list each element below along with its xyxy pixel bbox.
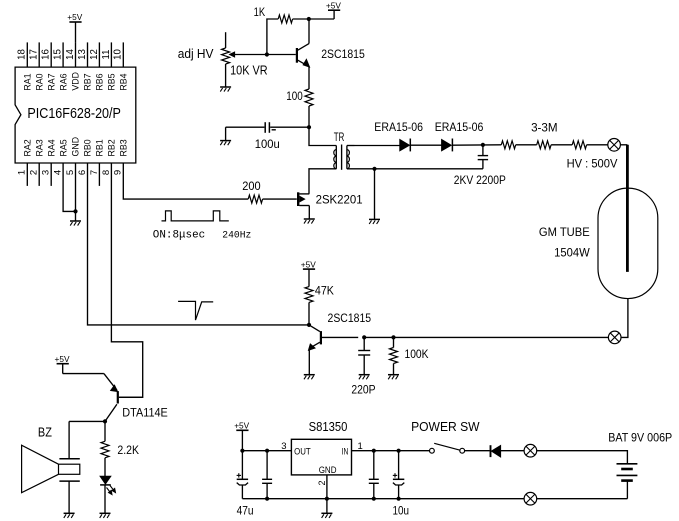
svg-text:3: 3	[41, 170, 52, 175]
svg-text:POWER SW: POWER SW	[411, 420, 480, 434]
svg-text:2SC1815: 2SC1815	[328, 311, 372, 325]
svg-text:RB3: RB3	[119, 139, 129, 156]
node C7 / rail	[372, 449, 376, 453]
svg-text:PIC16F628-20/P: PIC16F628-20/P	[27, 106, 121, 122]
+5V supply at regulator output	[234, 421, 249, 451]
wire U2 GND down	[326, 475, 328, 513]
wire CN4 to battery -	[537, 498, 628, 500]
wire R7-R8	[551, 144, 572, 146]
IC U1 PIC16F628-20/P body	[15, 67, 136, 163]
svg-text:2: 2	[29, 170, 40, 175]
wire RB2 pin8 to Q4 base	[111, 163, 142, 397]
svg-text:S81350: S81350	[309, 420, 348, 434]
+5V supply at R9	[301, 259, 316, 286]
svg-text:12: 12	[89, 49, 100, 60]
wire U2 IN to switch	[352, 450, 430, 452]
transistor Q4 DTA114E (PNP)	[104, 374, 143, 422]
transformer TR	[309, 127, 483, 194]
svg-text:9: 9	[113, 170, 124, 175]
wire D1 to D2	[410, 144, 441, 146]
node Q1 base / VR1 / R1	[265, 52, 269, 56]
node C6 / rail	[265, 449, 269, 453]
resistor R6 (3-3M chain)	[501, 141, 515, 149]
svg-text:GM TUBE: GM TUBE	[539, 225, 590, 239]
wire base line to CN2	[394, 336, 609, 338]
junction RA5/GND	[73, 209, 77, 213]
ground at R10	[388, 374, 399, 376]
svg-text:3-3M: 3-3M	[531, 120, 558, 134]
GM tube anode (thick)	[626, 145, 629, 272]
VR1 wiper arrow to Q1 base	[230, 52, 267, 57]
svg-text:2KV 2200P: 2KV 2200P	[454, 173, 506, 187]
svg-text:200: 200	[242, 179, 261, 193]
svg-text:47K: 47K	[315, 283, 334, 297]
svg-text:47u: 47u	[237, 504, 254, 518]
buzzer BZ	[22, 421, 105, 513]
svg-text:10: 10	[113, 49, 124, 60]
LED D3	[100, 476, 115, 513]
+5V supply at U1 VDD pin14	[67, 12, 82, 42]
capacitor C1 100u (electrolytic)	[226, 122, 309, 140]
svg-text:HV : 500V: HV : 500V	[567, 156, 618, 170]
wire GM tube cathode to CN2	[621, 299, 628, 338]
resistor R10 100K	[390, 337, 398, 374]
node U2 GND / ground rail	[325, 497, 329, 501]
capacitor C6 (bypass)	[262, 451, 272, 499]
resistor R8	[572, 141, 586, 149]
wire secondary bottom to ground	[374, 169, 376, 219]
node HV filter	[481, 143, 485, 147]
connector CN3 battery +	[524, 444, 537, 457]
wire pin4 RA5 to GND tie	[63, 163, 75, 211]
diode D2 ERA15-06	[442, 139, 453, 152]
node C7 ground rail	[372, 497, 376, 501]
svg-text:OUT: OUT	[294, 447, 311, 458]
wire C4 to R10	[364, 336, 393, 338]
resistor R11 2.2K	[101, 421, 109, 476]
U1 bottom pin labels RA2 RA3 RA4 RA5 GND RB0 RB1 RB2 RB3	[23, 137, 129, 157]
svg-text:RB2: RB2	[107, 139, 117, 156]
svg-text:1: 1	[17, 170, 28, 175]
svg-text:10K VR: 10K VR	[230, 64, 268, 78]
node secondary-bottom / ground	[372, 167, 376, 171]
svg-text:5: 5	[65, 170, 76, 175]
svg-text:220P: 220P	[351, 383, 375, 397]
wire D2 to HV node	[452, 144, 501, 146]
svg-text:RB1: RB1	[95, 139, 105, 156]
wire CN3 to battery	[537, 451, 628, 464]
svg-text:VDD: VDD	[71, 72, 81, 91]
ground at Q2 source	[304, 218, 315, 220]
U1 top pin numbers 18..10	[17, 49, 124, 60]
svg-text:RB5: RB5	[107, 73, 117, 90]
svg-text:GND: GND	[319, 465, 337, 476]
wire R6-R7	[516, 144, 537, 146]
ground at C1	[220, 140, 231, 142]
svg-text:RA4: RA4	[46, 139, 56, 156]
waveform: positive pulses	[162, 211, 229, 221]
svg-text:18: 18	[17, 49, 28, 60]
capacitor C4 220P	[358, 337, 370, 374]
svg-text:RB6: RB6	[95, 73, 105, 90]
diode D1 ERA15-06	[400, 139, 411, 152]
diode D4 (reverse protection)	[491, 445, 525, 457]
svg-text:100K: 100K	[405, 347, 429, 361]
svg-text:16: 16	[41, 49, 52, 60]
transistor Q1 2SC1815 (NPN)	[267, 19, 310, 89]
svg-text:RA6: RA6	[58, 73, 68, 90]
GM tube body 1504W	[598, 188, 658, 298]
svg-text:RA3: RA3	[34, 139, 44, 156]
svg-text:+5V: +5V	[301, 259, 316, 269]
switch SW1 POWER SW	[430, 443, 490, 453]
svg-text:14: 14	[65, 49, 76, 60]
svg-text:RB4: RB4	[119, 73, 129, 90]
svg-text:240Hz: 240Hz	[222, 230, 251, 242]
wire CN1 to GM tube anode	[620, 144, 627, 146]
capacitor C8 10u (electrolytic)	[393, 451, 405, 499]
capacitor C7 (bypass)	[369, 451, 379, 499]
node Q1 emitter / C1 / TR primary	[307, 125, 311, 129]
+5V supply top right	[309, 0, 342, 19]
ground at BZ	[64, 512, 75, 514]
svg-text:adj HV: adj HV	[178, 47, 214, 61]
svg-text:BAT 9V 006P: BAT 9V 006P	[608, 431, 672, 445]
svg-text:ON:8μsec: ON:8μsec	[153, 230, 205, 242]
ground at U1 GND	[70, 220, 81, 222]
wire pin5 GND down	[75, 163, 77, 221]
potentiometer VR1 10K adj HV	[222, 32, 230, 86]
ground at D3	[100, 512, 111, 514]
capacitor C5 47u (electrolytic)	[237, 451, 249, 499]
svg-text:1K: 1K	[254, 5, 266, 19]
ground at TR secondary	[369, 218, 380, 220]
svg-text:3: 3	[281, 441, 286, 452]
svg-text:2SK2201: 2SK2201	[316, 192, 363, 206]
svg-text:100u: 100u	[255, 137, 280, 151]
svg-text:RB7: RB7	[83, 73, 93, 90]
svg-text:+5V: +5V	[55, 354, 70, 364]
U1 bottom pin numbers 1..9	[17, 170, 124, 175]
svg-text:7: 7	[89, 170, 100, 175]
transistor Q3 2SC1815 (NPN, mirrored)	[309, 325, 359, 375]
ground at VR1	[220, 86, 231, 88]
wire R8 to HV terminal	[587, 144, 608, 146]
svg-text:RA5: RA5	[58, 139, 68, 156]
svg-text:RA7: RA7	[46, 73, 56, 90]
svg-text:11: 11	[101, 49, 112, 59]
svg-text:RA1: RA1	[23, 73, 33, 90]
svg-text:+5V: +5V	[234, 421, 249, 431]
U1 top pins 18..10	[27, 42, 123, 67]
wire TR secondary to D1	[355, 145, 400, 147]
ground at U2 GND	[321, 512, 332, 514]
U1 top pin labels RA1 RA0 RA7 RA6 VDD RB7 RB6 RB5 RB4	[23, 72, 129, 91]
svg-text:4: 4	[53, 170, 64, 175]
svg-text:ERA15-06: ERA15-06	[374, 120, 423, 134]
battery B1 9V	[617, 464, 638, 499]
svg-text:+5V: +5V	[326, 0, 341, 10]
node +5V rail / C5	[240, 449, 244, 453]
capacitor C2 2KV 2200P	[478, 145, 488, 169]
svg-text:2: 2	[317, 480, 327, 485]
node Q3 collector / R9 / RB0	[307, 323, 311, 327]
resistor R9 47K	[305, 287, 313, 325]
regulator U2 S81350	[291, 439, 351, 475]
node R10 / base line	[391, 335, 395, 339]
connector CN2 GM tube return	[608, 331, 621, 344]
wire +5V rail	[242, 450, 291, 452]
svg-text:IN: IN	[342, 447, 349, 458]
wire RB0 pin6 to Q3 collector node	[88, 163, 310, 325]
svg-text:17: 17	[29, 49, 40, 60]
svg-text:100: 100	[286, 89, 303, 103]
svg-text:6: 6	[77, 170, 88, 175]
node R1/Q1 collector/+5V	[307, 17, 311, 21]
node C5 bottom rail	[265, 497, 269, 501]
svg-text:2SC1815: 2SC1815	[321, 47, 365, 61]
resistor R1 1K	[267, 15, 309, 55]
svg-text:1504W: 1504W	[554, 245, 590, 259]
svg-text:13: 13	[77, 49, 88, 60]
svg-text:TR: TR	[334, 130, 345, 144]
waveform: negative pulse	[178, 301, 213, 320]
U1 bottom pin stubs 1,2,3,7	[27, 163, 99, 186]
ground at C4	[359, 374, 370, 376]
connector CN1 HV terminal	[608, 139, 621, 152]
svg-text:8: 8	[101, 170, 112, 175]
svg-text:GND: GND	[71, 137, 81, 157]
wire RB3 pin9 to gate resistor	[123, 163, 248, 199]
node C4 / base line	[362, 335, 366, 339]
svg-text:RA0: RA0	[34, 73, 44, 90]
node C8 / rail	[397, 449, 401, 453]
svg-text:DTA114E: DTA114E	[122, 406, 168, 420]
+5V supply at Q4 emitter	[55, 354, 104, 374]
connector CN4 battery -	[524, 492, 537, 505]
ground rail wire	[242, 498, 523, 500]
transistor Q2 2SK2201 (FET)	[248, 192, 309, 218]
node C8 ground rail	[397, 497, 401, 501]
resistor R7	[537, 141, 551, 149]
svg-text:+5V: +5V	[67, 12, 82, 22]
svg-text:2.2K: 2.2K	[117, 443, 139, 457]
svg-text:BZ: BZ	[38, 426, 52, 440]
ground at Q3 emitter	[304, 374, 315, 376]
svg-text:10u: 10u	[393, 504, 410, 518]
svg-text:ERA15-06: ERA15-06	[435, 120, 484, 134]
svg-text:RB0: RB0	[83, 139, 93, 156]
node Q4 collector / BZ / R11	[103, 419, 107, 423]
svg-text:15: 15	[53, 49, 64, 60]
svg-text:RA2: RA2	[23, 139, 33, 156]
resistor R2 100	[305, 89, 313, 127]
